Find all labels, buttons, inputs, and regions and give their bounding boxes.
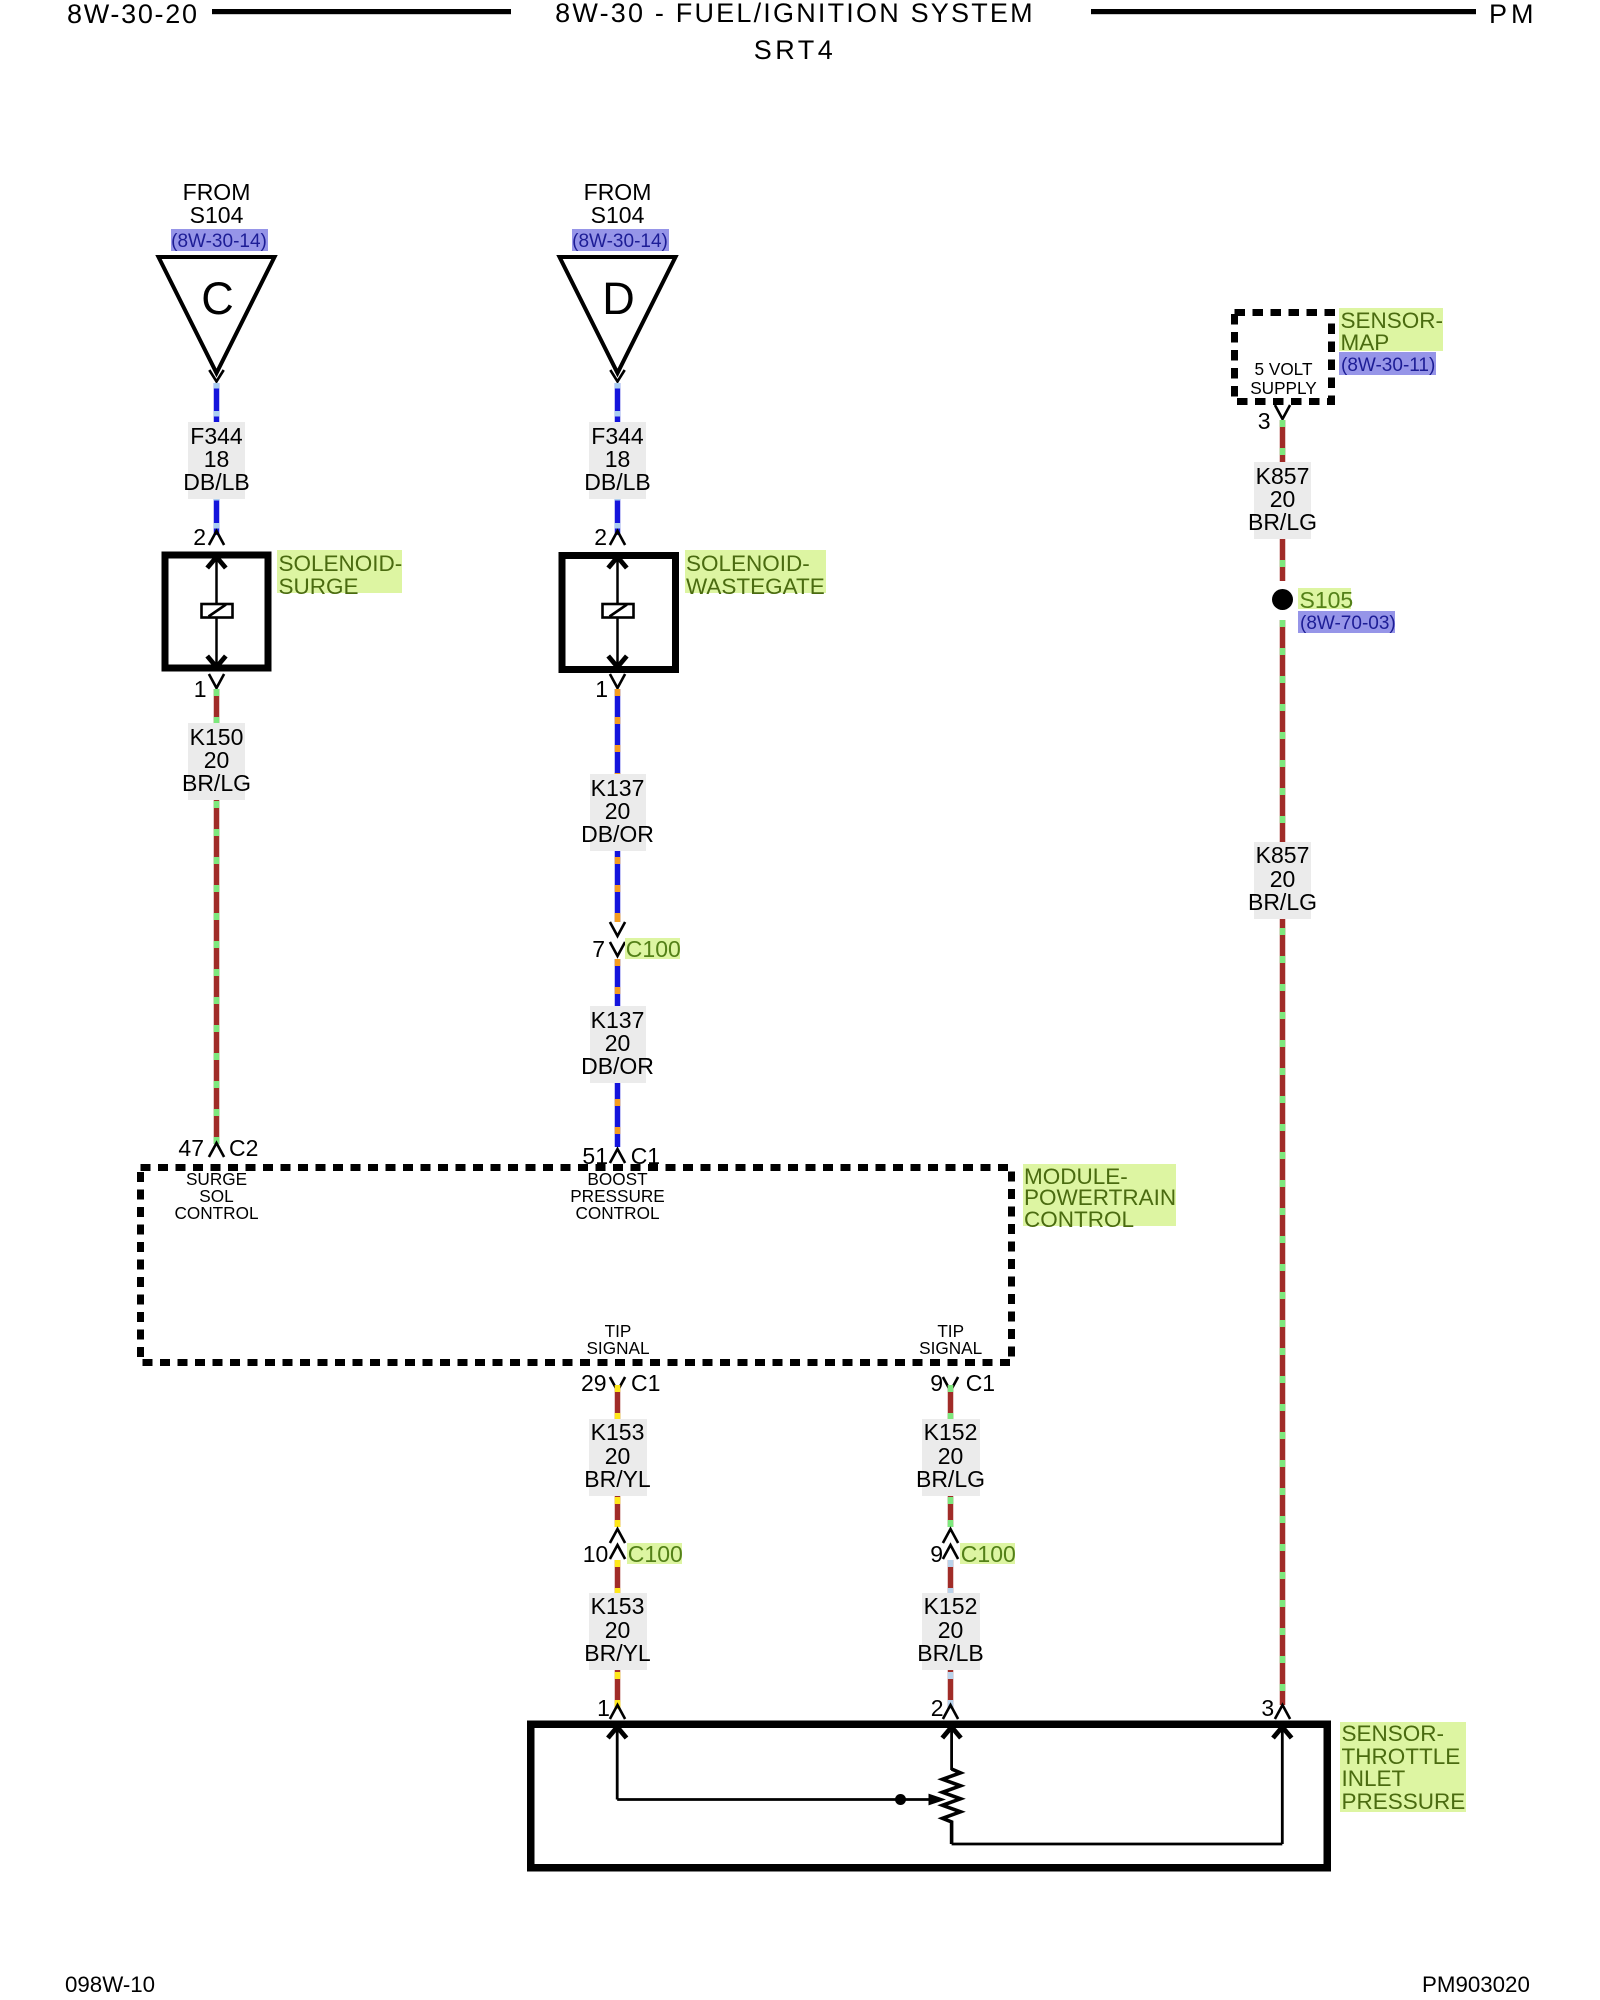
pin number 2 (TIP sensor) [931,1697,944,1720]
pin function 5 VOLT SUPPLY [1224,360,1344,397]
pin number 2 (solenoid wastegate) [594,526,607,549]
pin function TIP SIGNAL (pin 9) [891,1323,1011,1359]
chevron pin 1 TIP sensor [610,1705,625,1719]
pin number 51 (PCM) [582,1145,608,1168]
component label MODULE-POWERTRAIN CONTROL [1023,1164,1176,1226]
pin number 1 (TIP sensor) [597,1697,610,1720]
pin number 9 (C1) [930,1372,943,1395]
connector letter C [168,276,268,321]
internal wire from resistor to pin 3 [952,1843,1283,1846]
wire label F344 18 DB/LB (col D) [589,422,646,499]
wire K152 BR/LG upper [948,1385,954,1527]
component label SOLENOID-SURGE [277,550,402,593]
chevron pin 3 TIP sensor [1275,1705,1290,1719]
potentiometer resistor element [943,1769,961,1844]
footer right PM903020 [1422,1974,1530,1996]
wire label K152 20 BR/LB [922,1593,980,1670]
header rule left [212,9,511,14]
wire F344 DB/LB (col D) [615,383,621,535]
pin function SURGE SOL CONTROL [147,1171,287,1222]
pin number 47 (PCM) [178,1137,204,1160]
header rule right [1091,9,1476,14]
connector label C1 (pin 51) [631,1145,660,1168]
node label FROM S104 (col D) [538,181,698,227]
off-page connector triangle C [159,257,275,373]
chevron wire end above C100 (col D) [610,922,625,936]
pin 3 internal lead with arrow [1273,1726,1292,1844]
pin function TIP SIGNAL (pin 29) [558,1323,678,1359]
pin number 2 (solenoid surge) [193,526,206,549]
pin number 3 (TIP sensor) [1261,1697,1274,1720]
wire K137 DB/OR lower [615,959,621,1147]
reference (8W-70-03) [1298,611,1395,633]
pin 2 internal lead with arrow [942,1726,961,1770]
wire label K150 20 BR/LG [188,723,245,800]
reference (8W-30-14) (col C) [171,229,268,251]
pin number 1 (solenoid wastegate) [595,678,608,701]
chevron pin 3 MAP [1275,405,1290,419]
header title line 2 SRT4 [695,37,895,64]
wire label K152 20 BR/LG [922,1419,980,1496]
splice S105 junction dot [1272,589,1293,610]
chevron connector C100 (pin 9) [943,1545,958,1559]
chevron below triangle C [209,370,223,382]
header title line 1 [445,0,1145,27]
pin number 9 (C100) [930,1543,943,1566]
connector label C100 (pin 10) [627,1543,682,1565]
wire label K857 20 BR/LG (upper) [1254,462,1311,539]
wire label K153 20 BR/YL (lower) [589,1593,647,1670]
off-page connector triangle D [560,257,676,373]
wire F344 DB/LB (col C) [214,383,220,535]
pin number 7 (C100) [592,938,605,961]
chevron connector C100 (pin 10) [610,1545,625,1559]
chevron connector C100 (col D) [610,942,625,956]
chevron below wastegate box [610,674,625,688]
connector letter D [569,276,669,321]
chevron pin 2 TIP sensor [943,1705,958,1719]
component label SENSOR-MAP [1339,308,1443,351]
wire K152 BR/LB lower [948,1560,954,1709]
chevron pin 29 C1 [610,1377,625,1391]
chevron pin 9 C1 [943,1377,958,1391]
connector label C2 [229,1137,258,1160]
wire K137 DB/OR upper [615,689,621,922]
wiper junction dot [895,1794,906,1805]
component label SOLENOID-WASTEGATE [685,550,826,593]
wire K153 BR/YL upper [615,1385,621,1527]
wire label K137 20 DB/OR (upper) [590,774,646,851]
node label FROM S104 (col C) [137,181,297,227]
chevron pin 47 C2 [209,1143,224,1157]
wire K857 BR/LG lower [1280,620,1286,1705]
component label SENSOR-THROTTLE INLET PRESSURE [1340,1722,1466,1812]
pin number 3 (MAP) [1258,410,1271,433]
connector label C1 (pin 9) [966,1372,995,1395]
reference (8W-30-11) [1339,352,1436,375]
wire K153 BR/YL lower [615,1560,621,1709]
sensor-MAP dashed box [1235,313,1332,402]
module-powertrain control dashed box [141,1168,1012,1363]
chevron wire end above C100 (pin 10) [610,1529,625,1543]
pin number 10 (C100) [583,1543,609,1566]
chevron below surge box [209,674,224,688]
header PM [1489,1,1538,28]
pin number 1 (solenoid surge) [194,678,207,701]
connector label C100 (col D) [625,938,680,960]
sensor-throttle inlet pressure box [531,1724,1328,1868]
header page number [67,1,199,28]
wire label K137 20 DB/OR (lower) [590,1006,646,1083]
wire label K153 20 BR/YL (upper) [589,1419,647,1496]
reference (8W-30-14) (col D) [572,229,669,251]
wire K150 BR/LG [214,689,220,1144]
pin number 29 (C1) [581,1372,607,1395]
wire label K857 20 BR/LG (lower) [1254,842,1311,919]
splice label S105 [1298,588,1351,609]
chevron pin 51 C1 [610,1149,625,1163]
wire label F344 18 DB/LB (col C) [188,422,245,499]
pin function BOOST PRESSURE CONTROL [538,1171,698,1222]
chevron wire end above C100 (pin 9) [943,1529,958,1543]
wire K857 BR/LG upper [1280,420,1286,581]
chevron below triangle D [610,370,624,382]
solenoid-surge component box [165,555,268,668]
chevron pin 2 surge [209,531,224,545]
connector label C100 (pin 9) [960,1543,1015,1565]
pin 1 internal lead with arrow and wiper line [608,1726,946,1805]
connector label C1 (pin 29) [631,1372,660,1395]
chevron pin 2 wastegate [610,531,625,545]
solenoid-wastegate component box [562,556,676,670]
footer left 098W-10 [65,1974,155,1996]
